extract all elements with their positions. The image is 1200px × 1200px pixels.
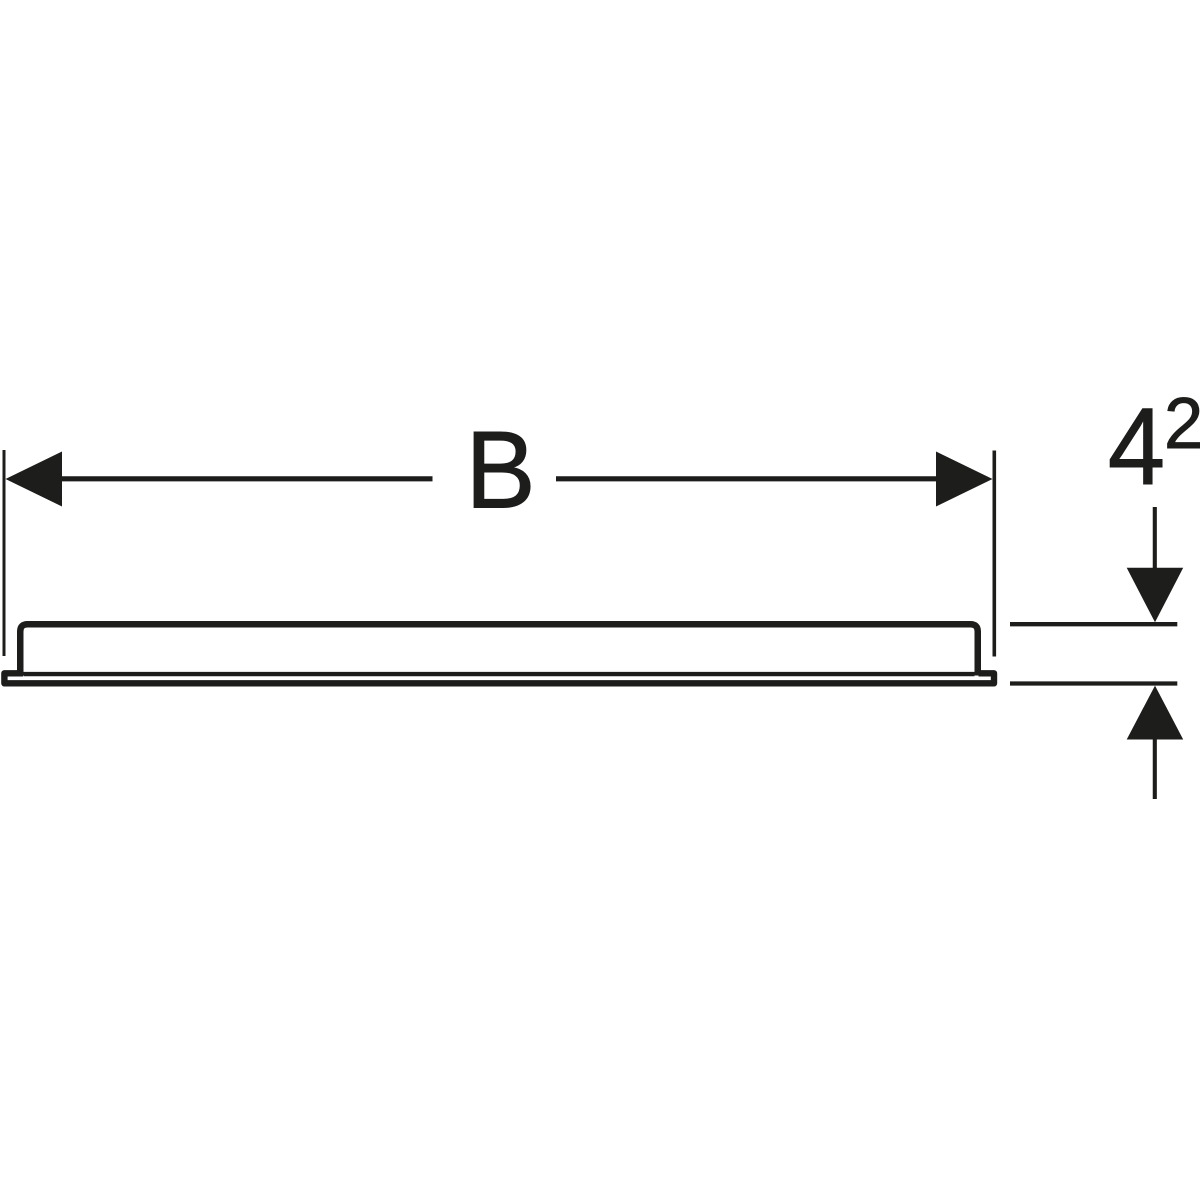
svg-text:2: 2 [1164,383,1200,464]
arrowhead down [1127,568,1184,623]
leader line above down-arrow [1153,507,1157,570]
dimension line B left segment [58,476,433,481]
arrowhead right [936,452,993,507]
svg-text:B: B [465,408,535,530]
profile body bottom edge [24,672,975,676]
extension line left [3,450,6,656]
arrowhead left [6,452,63,507]
svg-text:4: 4 [1108,384,1165,508]
dimension line B right segment [556,476,940,481]
profile main body outline [20,624,978,675]
tick line bottom (plate bottom face) [1010,681,1177,685]
tick line top (profile top face) [1010,622,1177,626]
profile bottom plate with end hooks [4,673,994,683]
arrowhead up [1127,686,1184,740]
extension line right [992,451,996,657]
leader line below up-arrow [1153,739,1157,799]
